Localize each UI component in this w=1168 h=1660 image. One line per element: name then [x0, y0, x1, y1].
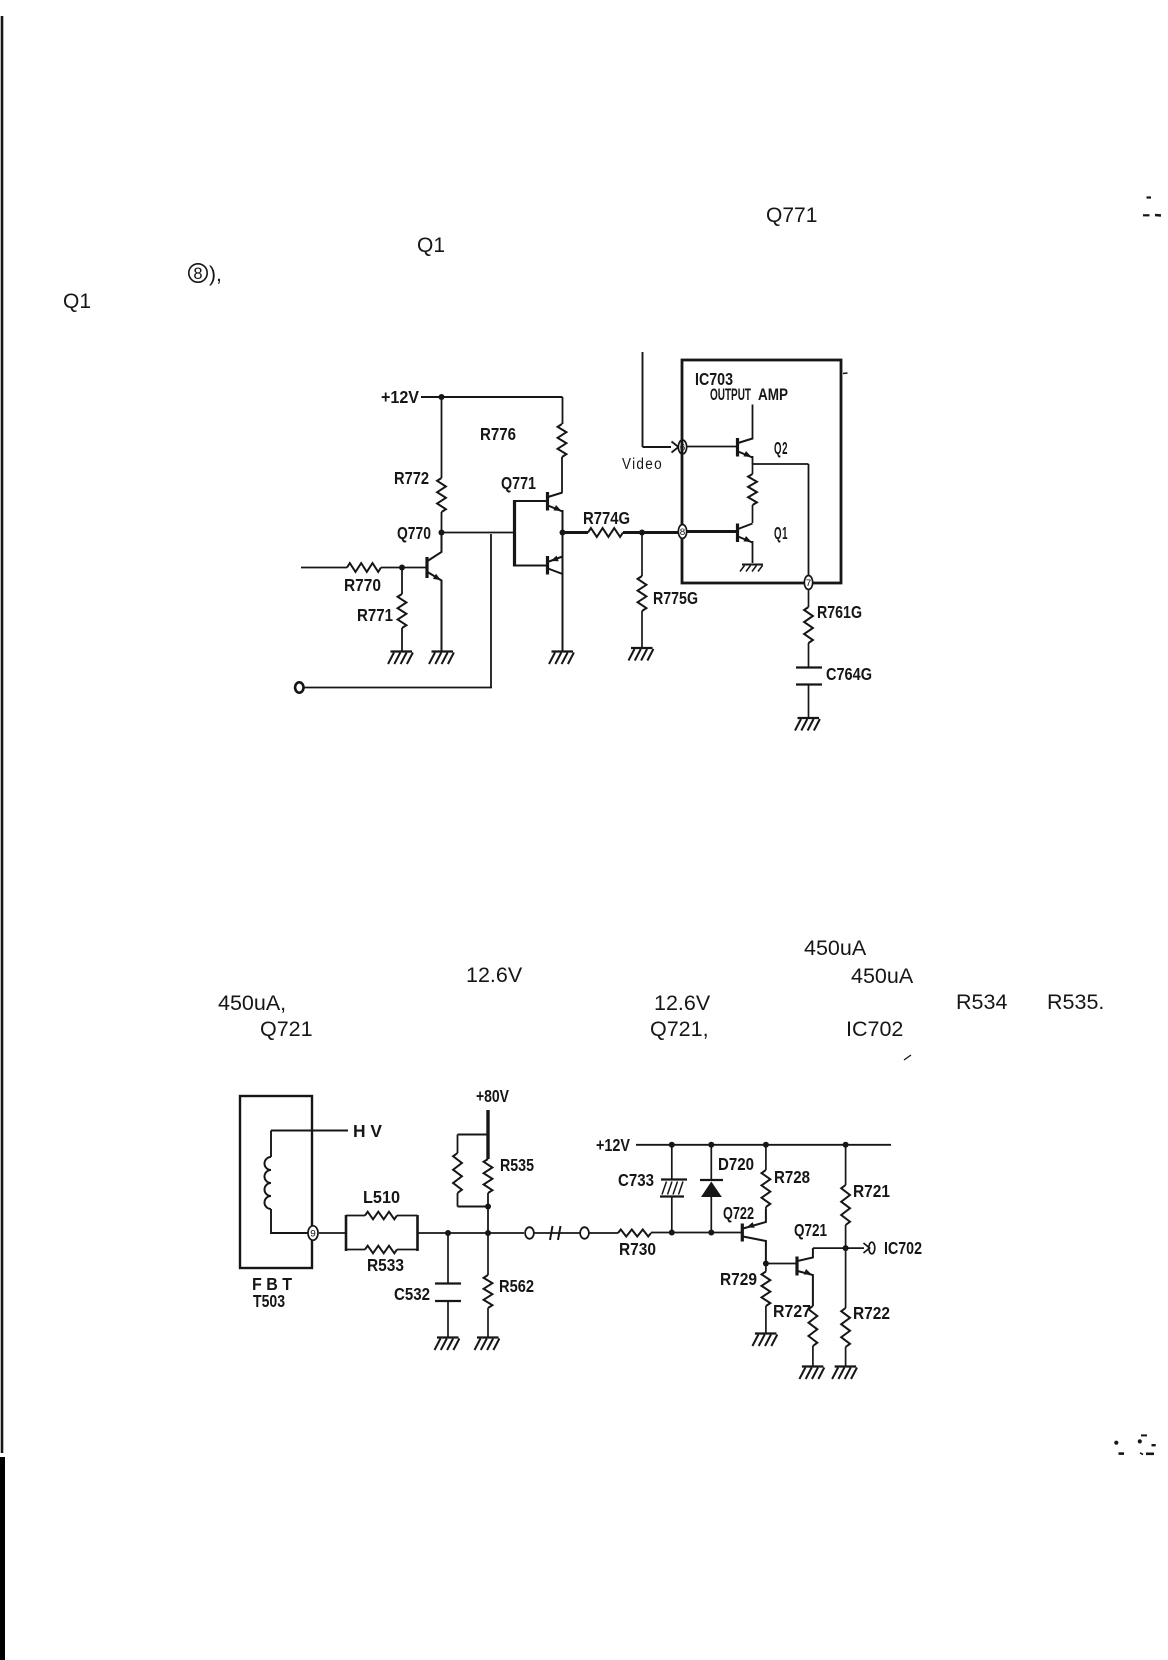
- wire R535 bottom lead: [487, 1193, 489, 1233]
- wire Video input horizontal: [643, 446, 672, 448]
- transistor Q771 lower: [546, 556, 549, 575]
- node R721 top junction: [843, 1142, 849, 1148]
- svg-text:+12V: +12V: [381, 387, 419, 407]
- svg-text:),: ),: [209, 263, 222, 286]
- svg-text:R776: R776: [480, 424, 516, 444]
- wire Q721 base: [766, 1263, 796, 1265]
- resistor R722: [841, 1308, 850, 1347]
- node R535 bottom junction: [485, 1204, 491, 1210]
- resistor R562: [484, 1275, 493, 1308]
- svg-text:R729: R729: [720, 1269, 757, 1289]
- svg-text:R770: R770: [344, 575, 381, 595]
- resistor R776: [558, 424, 567, 457]
- ground under C764G: [798, 717, 820, 719]
- page left margin rule: [1, 16, 4, 1453]
- wire R722 top lead: [845, 1248, 847, 1308]
- wire R721 top lead: [845, 1145, 847, 1185]
- wire R727 bottom lead: [812, 1346, 814, 1366]
- svg-text:C733: C733: [618, 1170, 654, 1190]
- svg-text:AMP: AMP: [758, 385, 788, 404]
- scan artifact dot: [904, 1055, 911, 1060]
- wire vertical return: [490, 534, 492, 688]
- wire Q771 lower collector to ground: [562, 533, 564, 652]
- wire R775G bottom lead: [641, 611, 643, 648]
- svg-text:Video: Video: [622, 456, 663, 473]
- wire FBT pin to L510 block: [319, 1232, 346, 1234]
- pin 6 of IC703: [678, 440, 686, 454]
- wire C764G bottom lead: [808, 685, 810, 718]
- wire pin8 to Q1 base: [687, 530, 736, 533]
- pin 8 of IC703: [678, 525, 686, 539]
- transistor Q770: [425, 557, 428, 578]
- wire down to pin 7: [808, 464, 810, 576]
- svg-text:Q770: Q770: [397, 523, 431, 543]
- resistor R727: [809, 1306, 818, 1346]
- transistor Q2: [736, 438, 739, 457]
- transistor Q722: [741, 1224, 744, 1242]
- wire C733 bottom lead: [671, 1197, 673, 1233]
- wire R562 bottom lead: [487, 1308, 489, 1337]
- svg-text:R535.: R535.: [1047, 990, 1104, 1014]
- node Q722 collector junction: [763, 1261, 769, 1267]
- wire R776 bottom lead: [561, 457, 563, 493]
- svg-text:R721: R721: [853, 1181, 890, 1201]
- wire R774G to IC703 pin: [623, 531, 678, 534]
- resistor R770: [347, 563, 381, 572]
- svg-text:12.6V: 12.6V: [466, 963, 523, 987]
- svg-text:R535: R535: [500, 1155, 534, 1175]
- svg-text:Q721: Q721: [260, 1017, 313, 1041]
- transistor Q771 upper: [546, 492, 549, 511]
- ground under Q770: [432, 650, 454, 652]
- wire Video input vertical: [642, 352, 644, 447]
- svg-text:R730: R730: [619, 1239, 656, 1259]
- wire R722 bottom lead: [845, 1347, 847, 1366]
- node D720 bottom junction: [708, 1230, 714, 1236]
- pin 7 of IC703: [804, 576, 812, 590]
- ic-box IC703: [682, 360, 841, 583]
- svg-text:450uA,: 450uA,: [218, 991, 286, 1015]
- wire R776 top lead: [562, 397, 564, 424]
- node open terminal o: [295, 682, 303, 692]
- wire R772 bottom lead: [441, 512, 443, 533]
- transistor Q721: [795, 1257, 798, 1276]
- svg-text:Q771: Q771: [501, 473, 536, 493]
- resistor R534 loop top: [458, 1134, 489, 1136]
- resistor R771: [398, 594, 407, 628]
- parallel block bars: [345, 1215, 348, 1251]
- wire coil bottom lead: [271, 1209, 308, 1233]
- resistor R775G: [638, 576, 647, 611]
- wire resistor bottom lead: [752, 505, 754, 523]
- wire bottom return line: [304, 687, 492, 689]
- node R775G junction: [639, 530, 645, 536]
- wire R775G top lead: [641, 533, 643, 577]
- wire R761G to C764G: [808, 643, 810, 667]
- svg-text:C764G: C764G: [826, 664, 872, 684]
- node Q771 output junction: [560, 530, 566, 536]
- transistor pair Q771 base bar: [513, 500, 516, 567]
- wire +12V rail2: [636, 1144, 891, 1146]
- wire R761G top lead: [808, 590, 810, 608]
- wire Q770 collector to Q771 base: [442, 532, 515, 534]
- node C733 top junction: [669, 1142, 675, 1148]
- svg-text:12.6V: 12.6V: [654, 991, 711, 1015]
- node C733 bottom junction: [669, 1230, 675, 1236]
- connector bars: [550, 1226, 553, 1240]
- ground under Q1: [742, 564, 763, 566]
- node C532 junction: [445, 1230, 451, 1236]
- ground under Q771: [552, 650, 574, 652]
- ground under C532: [437, 1336, 459, 1338]
- svg-text:450uA: 450uA: [804, 936, 867, 960]
- wire R771 top lead: [401, 568, 403, 595]
- scan artifact bottom right: [1114, 1441, 1118, 1445]
- svg-text:R722: R722: [853, 1303, 890, 1323]
- svg-text:7: 7: [805, 579, 811, 590]
- ground under R771: [391, 650, 413, 652]
- connector right half: [580, 1227, 589, 1239]
- page left black bar: [0, 1457, 5, 1660]
- ground under R562: [477, 1336, 499, 1338]
- wire output to R774G: [563, 531, 589, 534]
- wire C532 top lead: [447, 1233, 449, 1283]
- resistor R774G: [588, 528, 623, 537]
- svg-text:8: 8: [193, 265, 202, 283]
- resistor R772: [437, 478, 446, 512]
- node Q770 collector junction: [439, 530, 445, 536]
- wire Q721 collector to node: [813, 1247, 846, 1249]
- node R770/R771 junction: [399, 565, 405, 571]
- wire R729 top lead: [765, 1264, 767, 1272]
- svg-text:Q721,: Q721,: [650, 1017, 709, 1041]
- svg-text:IC702: IC702: [846, 1017, 903, 1041]
- wire R721 bottom lead: [845, 1225, 847, 1248]
- wire C733 top lead: [671, 1145, 673, 1179]
- resistor R728: [762, 1170, 771, 1207]
- svg-text:450uA: 450uA: [851, 964, 914, 988]
- wire R771 bottom lead: [401, 628, 403, 651]
- transformer box FBT T503: [240, 1096, 312, 1268]
- svg-text:R727: R727: [773, 1301, 811, 1321]
- svg-text:R562: R562: [499, 1276, 534, 1296]
- wire R730 to Q722 base: [651, 1232, 741, 1234]
- node R562 junction: [485, 1230, 491, 1236]
- ground under R727: [802, 1365, 824, 1367]
- svg-text:9: 9: [310, 1229, 316, 1240]
- node D720 top junction: [708, 1142, 714, 1148]
- wire R728 top lead: [765, 1145, 767, 1170]
- node R728 top junction: [763, 1142, 769, 1148]
- wire +12V rail: [421, 396, 563, 398]
- svg-text:H V: H V: [353, 1121, 382, 1141]
- svg-text:T503: T503: [253, 1291, 285, 1311]
- resistor R730: [618, 1230, 651, 1237]
- svg-text:+12V: +12V: [596, 1135, 630, 1155]
- wire resistor top lead: [752, 464, 754, 474]
- wire connector to R730: [589, 1232, 618, 1234]
- wire R728 bottom lead: [765, 1207, 767, 1209]
- svg-text:L510: L510: [363, 1187, 400, 1207]
- svg-text:R774G: R774G: [583, 508, 630, 528]
- wire coil top lead: [270, 1131, 272, 1158]
- svg-text:C532: C532: [394, 1284, 430, 1304]
- wire R534 bottom lead: [457, 1193, 459, 1207]
- wire Q2 emitter junction to right: [753, 463, 809, 465]
- svg-text:Q1: Q1: [774, 523, 788, 543]
- wire block to connector: [418, 1232, 525, 1234]
- arrow into pin 6: [672, 442, 679, 453]
- svg-text:Q722: Q722: [723, 1203, 754, 1223]
- wire R562 top lead: [487, 1233, 489, 1275]
- ground under R775G: [631, 647, 653, 649]
- capacitor C764G: [796, 666, 822, 668]
- svg-text:Q721: Q721: [794, 1220, 827, 1240]
- ground under R729: [755, 1332, 777, 1334]
- svg-text:IC702: IC702: [884, 1238, 922, 1258]
- pin 9 of FBT: [308, 1226, 318, 1240]
- wire R772 top lead: [441, 397, 443, 478]
- inductor L510 zigzag: [365, 1212, 397, 1220]
- resistor R535: [484, 1159, 493, 1193]
- resistor R534 loop bottom: [458, 1206, 489, 1208]
- svg-text:R534: R534: [956, 990, 1007, 1014]
- node +12V / R772 junction: [439, 394, 445, 400]
- wire D720 top lead: [710, 1145, 712, 1179]
- diode D720: [700, 1179, 723, 1181]
- svg-text:R772: R772: [394, 468, 429, 488]
- inductor FBT winding: [265, 1157, 271, 1209]
- svg-text:+80V: +80V: [476, 1086, 509, 1106]
- ground under R722: [835, 1365, 857, 1367]
- scan artifact top right: [1147, 196, 1152, 198]
- wire to IC702: [846, 1247, 864, 1249]
- inductor L510: [346, 1215, 365, 1217]
- svg-text:D720: D720: [718, 1154, 754, 1174]
- arrow into IC702 pin: [864, 1243, 870, 1253]
- scan tick near IC703: [843, 372, 848, 375]
- svg-text:R771: R771: [357, 605, 393, 625]
- capacitor C733: [661, 1178, 687, 1180]
- svg-text:R775G: R775G: [653, 588, 698, 608]
- svg-text:R728: R728: [774, 1167, 810, 1187]
- resistor R533 zigzag: [365, 1246, 397, 1254]
- wire R534 top lead: [457, 1135, 459, 1154]
- body text circled 8: [189, 264, 207, 282]
- pin of IC702: [869, 1242, 875, 1254]
- svg-text:R761G: R761G: [817, 602, 862, 622]
- resistor R721: [841, 1185, 850, 1225]
- wire D720 bottom lead: [710, 1197, 712, 1233]
- svg-text:Q1: Q1: [417, 234, 445, 257]
- resistor R761G: [804, 607, 813, 643]
- wire input line: [301, 567, 347, 569]
- resistor internal IC703: [748, 474, 757, 505]
- wire R729 bottom lead: [765, 1306, 767, 1333]
- svg-text:8: 8: [679, 528, 685, 539]
- wire R770 to base: [381, 567, 426, 569]
- wire between connector halves: [534, 1232, 580, 1234]
- svg-text:Q771: Q771: [766, 204, 817, 227]
- resistor R534 unlabeled: [453, 1153, 462, 1193]
- wire pin6 to Q2 base: [687, 446, 736, 448]
- wire HV horizontal: [271, 1130, 348, 1132]
- node R721/R722 junction: [843, 1245, 849, 1251]
- resistor R729: [762, 1272, 771, 1307]
- wire C532 bottom lead: [447, 1301, 449, 1337]
- svg-text:Q2: Q2: [774, 438, 788, 458]
- resistor R533: [346, 1249, 365, 1251]
- connector left half: [525, 1227, 534, 1239]
- svg-text:OUTPUT: OUTPUT: [710, 385, 751, 404]
- capacitor C532: [435, 1282, 461, 1284]
- svg-text:R533: R533: [367, 1255, 404, 1275]
- wire +80V feed: [486, 1110, 489, 1159]
- svg-text:Q1: Q1: [63, 290, 91, 313]
- transistor Q1: [736, 524, 739, 543]
